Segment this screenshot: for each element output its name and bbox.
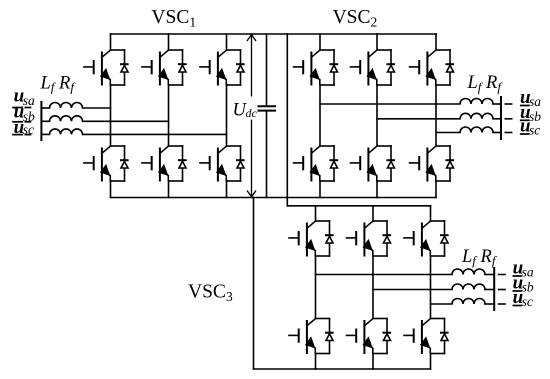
capacitor C (DC link) [258,34,277,198]
wire: inductor to terminal bar (VSC2 phase c) [493,132,501,134]
transistor VSC2 leg a upper IGBT [294,50,320,85]
diode VSC2 leg c upper antiparallel [446,50,455,85]
wire: VSC3 top bus [287,205,430,207]
svg-text:sa: sa [522,265,534,280]
IGBT cell VSC2 leg a upper [294,50,339,86]
IGBT cell VSC2 leg c lower [410,146,455,182]
diode VSC3 leg b lower antiparallel [383,319,392,354]
emitter arrow [362,336,373,348]
inductor Lf phase a (left) [50,103,83,109]
dash: VSC2 phase a source [505,103,513,105]
emitter arrow [158,68,169,80]
wire: VSC3 leg b top lead [372,206,374,221]
svg-text:sa: sa [23,93,35,108]
IGBT cell VSC1 leg a lower [84,146,129,182]
IGBT cell VSC3 leg b lower [347,319,392,355]
transistor VSC2 leg b lower IGBT [351,146,377,181]
diode VSC1 leg a lower antiparallel [120,146,129,181]
IGBT cell VSC1 leg b lower [142,146,187,182]
wire collector node [436,145,450,147]
transistor VSC3 leg b upper IGBT [347,221,373,256]
wire: VSC2 leg c top lead [435,34,437,50]
IGBT cell VSC3 leg a upper [289,221,334,257]
wire: VSC3 leg c midpoint (phase node) [430,256,432,319]
wire: VSC1 leg a midpoint (phase node) [110,85,112,146]
wire emitter node [431,255,445,257]
transistor VSC2 leg c upper IGBT [410,50,436,85]
diode VSC2 leg c lower antiparallel [446,146,455,181]
wire: VSC1 leg a bottom lead [110,181,112,198]
wire: inductor to terminal bar (VSC3 phase b) [485,289,494,291]
wire collector node [316,220,330,222]
wire: VSC2 leg b midpoint (phase node) [376,85,378,146]
wire emitter node [373,353,387,355]
wire emitter node [111,180,125,182]
wire: VSC3 bottom bus [254,368,431,370]
svg-text:sb: sb [522,280,534,295]
IGBT cell VSC1 leg c upper [200,50,245,86]
transistor VSC3 leg b lower IGBT [347,319,373,354]
terminal bar (right AC source, VSC3) [493,267,495,311]
diode VSC3 leg a upper antiparallel [325,221,334,256]
label u_sb (left) with underline [12,102,35,125]
transistor VSC2 leg c lower IGBT [410,146,436,181]
svg-text:sa: sa [529,94,541,109]
label Udc [233,101,258,121]
terminal bar (left AC source) [40,101,42,141]
transistor VSC2 leg a lower IGBT [294,146,320,181]
diode VSC1 leg b upper antiparallel [178,50,187,85]
wire: VSC1 leg c top lead [226,34,228,50]
diode VSC3 leg c upper antiparallel [440,221,449,256]
wire: inductor to terminal bar (VSC3 phase c) [485,303,494,305]
emitter arrow [420,336,431,348]
wire collector node [320,49,334,51]
IGBT cell VSC1 leg a upper [84,50,129,86]
wire emitter node [436,180,450,182]
wire: phase b to VSC1 leg [83,120,169,122]
inductor Lf phase a (VSC3) [452,269,485,275]
svg-text:sc: sc [529,123,540,138]
wire collector node [431,318,445,320]
wire collector node [227,49,241,51]
wire collector node [431,220,445,222]
diode VSC1 leg c upper antiparallel [236,50,245,85]
diode VSC1 leg c lower antiparallel [236,146,245,181]
emitter arrow [309,164,320,176]
inductor Lf phase c (VSC3) [452,299,485,305]
wire: top DC bus (+) [111,33,437,35]
wire emitter node [377,180,391,182]
wire emitter node [320,180,334,182]
label Lf Rf (VSC3) [461,247,498,268]
transistor VSC1 leg c lower IGBT [200,146,226,181]
transistor VSC1 leg b lower IGBT [142,146,168,181]
IGBT cell VSC2 leg b upper [351,50,396,86]
transistor VSC1 leg b upper IGBT [142,50,168,85]
wire: VSC2 leg a top lead [319,34,321,50]
wire: VSC3 leg b bottom lead [372,354,374,370]
wire: VSC3 leg a midpoint (phase node) [315,256,317,319]
IGBT cell VSC2 leg b lower [351,146,396,182]
dash: VSC3 phase a source [498,274,506,276]
dash: VSC3 phase b source [498,289,506,291]
wire: VSC1 leg a top lead [110,34,112,50]
diode VSC1 leg a upper antiparallel [120,50,129,85]
wire: VSC3 leg c bottom lead [430,354,432,370]
diode VSC2 leg a lower antiparallel [330,146,339,181]
dash: VSC2 phase b source [505,118,513,120]
wire: VSC3 leg a bottom lead [315,354,317,370]
emitter arrow [425,68,436,80]
wire: VSC2 leg c midpoint (phase node) [435,85,437,146]
wire collector node [373,318,387,320]
inductor Lf phase c (VSC2) [460,127,493,132]
terminal bar (right AC source, VSC2) [500,96,502,140]
emitter arrow [366,164,377,176]
dash: VSC3 phase c source [498,303,506,305]
IGBT cell VSC3 leg b upper [347,221,392,257]
wire collector node [320,145,334,147]
label u_sb (VSC3) with underline [513,273,534,295]
wire: VSC3 phase a to inductor [316,274,453,276]
wire: VSC3 phase b to inductor [373,289,452,291]
wire collector node [111,145,125,147]
wire emitter node [169,84,183,86]
transistor VSC1 leg a lower IGBT [84,146,110,181]
IGBT cell VSC3 leg c upper [404,221,449,257]
wire collector node [377,49,391,51]
wire: VSC2 leg a bottom lead [319,181,321,198]
diode VSC3 leg c lower antiparallel [440,319,449,354]
label u_sa (VSC2) with underline [520,87,541,109]
emitter arrow [420,239,431,251]
wire: VSC1 leg b midpoint (phase node) [168,85,170,146]
label u_sa (VSC3) with underline [513,258,534,280]
wire collector node [111,49,125,51]
IGBT cell VSC3 leg c lower [404,319,449,355]
label Lf Rf (left) [40,73,77,94]
inductor Lf phase b (VSC2) [460,113,493,119]
wire collector node [316,318,330,320]
wire: inductor to terminal bar (VSC2 phase b) [493,118,501,120]
wire: VSC3 leg a top lead [315,206,317,221]
emitter arrow [305,336,316,348]
wire: phase a source stub (left) [41,107,49,109]
wire emitter node [436,84,450,86]
wire: inductor to terminal bar (VSC3 phase a) [485,274,494,276]
wire: bottom DC bus (-) [111,197,437,199]
wire: VSC3 phase c to inductor [431,303,453,305]
wire: VSC3 leg b midpoint (phase node) [372,256,374,319]
transistor VSC3 leg a upper IGBT [289,221,315,256]
wire collector node [227,145,241,147]
transistor VSC3 leg c upper IGBT [404,221,430,256]
emitter arrow [309,68,320,80]
diode VSC2 leg b upper antiparallel [387,50,396,85]
transistor VSC1 leg a upper IGBT [84,50,110,85]
wire: phase a to VSC1 leg [83,107,111,109]
wire emitter node [377,84,391,86]
wire: VSC2 leg a midpoint (phase node) [319,85,321,146]
emitter arrow [362,239,373,251]
wire: phase c to VSC1 leg [83,133,227,135]
emitter arrow [425,164,436,176]
wire emitter node [320,84,334,86]
label u_sc (VSC3) with underline [513,287,533,309]
wire: phase c source stub (left) [41,133,49,135]
voltage measurement arrow Udc (double-headed) [247,35,256,197]
wire: VSC1 leg b bottom lead [168,181,170,198]
IGBT cell VSC3 leg a lower [289,319,334,355]
emitter arrow [158,164,169,176]
label u_sa (left) with underline [12,85,35,108]
label u_sc (VSC2) with underline [520,116,540,138]
wire emitter node [169,180,183,182]
wire: VSC2 leg b top lead [376,34,378,50]
wire emitter node [373,255,387,257]
svg-text:sc: sc [522,294,533,309]
wire emitter node [227,180,241,182]
wire emitter node [316,255,330,257]
wire: VSC2 phase b to inductor [377,118,460,120]
transistor VSC1 leg c upper IGBT [200,50,226,85]
IGBT cell VSC1 leg b upper [142,50,187,86]
wire: inductor to terminal bar (VSC2 phase a) [493,103,501,105]
emitter arrow [366,68,377,80]
wire collector node [377,145,391,147]
wire: phase b source stub (left) [41,120,49,122]
label u_sc (left) with underline [12,117,34,138]
wire collector node [169,145,183,147]
dash: VSC2 phase c source [505,132,513,134]
diode VSC2 leg a upper antiparallel [330,50,339,85]
wire emitter node [431,353,445,355]
emitter arrow [100,164,111,176]
wire: VSC1 leg b top lead [168,34,170,50]
IGBT cell VSC2 leg a lower [294,146,339,182]
inductor Lf phase a (VSC2) [460,99,493,104]
emitter arrow [100,68,111,80]
wire: VSC3 leg c top lead [430,206,432,221]
IGBT cell VSC2 leg c upper [410,50,455,86]
wire: positive feed to VSC3 (from top bus down) [286,34,288,206]
wire: VSC2 phase a to inductor [320,103,460,105]
label Lf Rf (VSC2) [467,73,504,94]
diode VSC3 leg a lower antiparallel [325,319,334,354]
diode VSC1 leg b lower antiparallel [178,146,187,181]
diode VSC3 leg b upper antiparallel [383,221,392,256]
IGBT cell VSC1 leg c lower [200,146,245,182]
transistor VSC2 leg b upper IGBT [351,50,377,85]
transistor VSC3 leg c lower IGBT [404,319,430,354]
inductor Lf phase c (left) [50,129,83,135]
wire: VSC1 leg c bottom lead [226,181,228,198]
wire: VSC1 leg c midpoint (phase node) [226,85,228,146]
wire collector node [436,49,450,51]
wire emitter node [316,353,330,355]
wire collector node [169,49,183,51]
label u_sb (VSC2) with underline [520,102,541,124]
inductor Lf phase b (left) [50,116,83,122]
emitter arrow [305,239,316,251]
emitter arrow [216,68,227,80]
wire collector node [373,220,387,222]
diode VSC2 leg b lower antiparallel [387,146,396,181]
wire: VSC2 leg b bottom lead [376,181,378,198]
wire: negative feed to VSC3 (from bottom bus down) [253,198,255,370]
transistor VSC3 leg a lower IGBT [289,319,315,354]
inductor Lf phase b (VSC3) [452,284,485,290]
wire emitter node [227,84,241,86]
svg-text:dc: dc [246,106,258,120]
wire: VSC2 leg c bottom lead [435,181,437,198]
wire: VSC2 phase c to inductor [436,132,460,134]
wire emitter node [111,84,125,86]
emitter arrow [216,164,227,176]
